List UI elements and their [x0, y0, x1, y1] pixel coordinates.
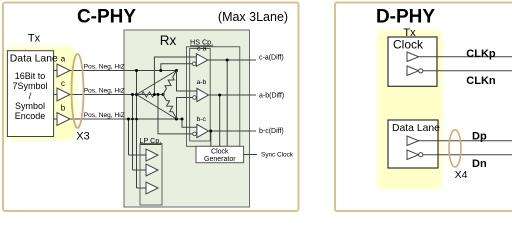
termination resistor R2 diagonal upper — [161, 69, 179, 96]
wire cmp1 plus input net c — [154, 57, 196, 95]
line driver b — [57, 113, 70, 126]
svg-text:X4: X4 — [455, 169, 468, 181]
svg-text:CLKn: CLKn — [466, 75, 496, 87]
node vertical bus a to LP — [136, 71, 138, 189]
termination resistor R3 diagonal lower — [161, 93, 179, 120]
comparator HS b-c — [197, 124, 209, 137]
svg-text:X3: X3 — [76, 131, 89, 143]
svg-text:Data Lane: Data Lane — [10, 54, 58, 65]
svg-text:Symbol: Symbol — [15, 101, 45, 111]
wire line b — [70, 118, 182, 120]
Rx block — [124, 30, 250, 207]
termination resistor R1 horizontal — [137, 92, 164, 97]
svg-text:b-c(Diff): b-c(Diff) — [259, 128, 284, 135]
svg-text:Dp: Dp — [472, 131, 487, 143]
wire clock tap from a-b output — [219, 95, 221, 146]
svg-text:C-PHY: C-PHY — [77, 7, 136, 28]
C-PHY Tx highlight region — [5, 45, 78, 142]
svg-text:Pos, Neg, HiZ: Pos, Neg, HiZ — [84, 88, 125, 95]
node T junction — [175, 69, 178, 72]
svg-text:7Symbol: 7Symbol — [12, 81, 47, 91]
D-PHY Tx highlight region — [376, 29, 444, 191]
svg-text:Clock: Clock — [211, 148, 229, 155]
comparator HS c-a — [196, 54, 207, 67]
comparator HS a-b — [197, 88, 209, 101]
line driver a — [57, 64, 70, 77]
wire encoder to driver b — [54, 118, 57, 120]
svg-text:Clock: Clock — [393, 38, 424, 52]
cable bundle ellipse X4 — [449, 130, 461, 167]
LP comparator 2 — [146, 164, 158, 176]
svg-text:Data Lane: Data Lane — [392, 123, 440, 134]
svg-text:(Max 3Lane): (Max 3Lane) — [218, 10, 288, 24]
HS comparator group box outer — [187, 47, 240, 147]
svg-text:Generator: Generator — [204, 156, 236, 163]
wire Dn — [423, 154, 512, 156]
node vertical b to LP — [128, 119, 130, 155]
cable bundle ellipse X3 — [72, 54, 84, 128]
svg-text:D-PHY: D-PHY — [376, 7, 435, 28]
wire encoder to driver a — [54, 70, 57, 72]
Clock Generator block — [196, 146, 244, 162]
wire cmp2 minus input net b — [177, 98, 193, 120]
wire output a-b — [208, 94, 256, 96]
data driver negative — [407, 150, 419, 160]
wire diagonal c node to node B — [137, 95, 177, 120]
D-PHY panel — [335, 3, 512, 212]
wire line a — [70, 70, 177, 72]
wire CLKp — [419, 56, 512, 58]
svg-text:Rx: Rx — [160, 33, 177, 48]
wire Dp — [419, 140, 512, 142]
svg-text:c: c — [61, 79, 65, 88]
wire cmp3 plus input net b — [182, 119, 197, 127]
wire clock tap from b-c output — [210, 131, 212, 146]
line driver c — [57, 88, 70, 101]
svg-text:Tx: Tx — [28, 33, 41, 45]
svg-text:Encode: Encode — [15, 111, 46, 121]
wire diagonal c node to node T — [137, 71, 177, 95]
svg-text:c-a: c-a — [197, 46, 207, 53]
svg-text:b: b — [61, 104, 66, 113]
svg-text:a-b: a-b — [197, 79, 207, 86]
LP comparator 3 — [146, 182, 158, 194]
svg-text:16Bit to: 16Bit to — [15, 71, 46, 81]
svg-text:a-b(Diff): a-b(Diff) — [259, 93, 284, 100]
svg-text:CLKp: CLKp — [466, 48, 496, 60]
svg-text:Pos, Neg, HiZ: Pos, Neg, HiZ — [84, 63, 125, 70]
Data Lane encoder block — [7, 51, 53, 137]
wire line c — [70, 94, 163, 96]
wire sync clock output — [244, 154, 257, 156]
data driver positive — [407, 136, 419, 146]
HS comparator group box inner — [190, 48, 211, 141]
svg-text:Pos, Neg, HiZ: Pos, Neg, HiZ — [84, 112, 125, 119]
node vertical c to LP — [132, 95, 134, 171]
Data Lane block D-PHY — [388, 120, 438, 168]
svg-text:a: a — [61, 55, 66, 64]
svg-text:b-c: b-c — [197, 116, 207, 123]
C-PHY panel — [3, 3, 299, 212]
svg-text:Dn: Dn — [472, 158, 487, 170]
wire cmp2 plus input net a — [177, 71, 197, 92]
clock driver negative — [407, 66, 419, 76]
svg-text:Sync Clock: Sync Clock — [261, 152, 294, 159]
wire CLKn — [423, 70, 512, 72]
wire encoder to driver c — [54, 94, 57, 96]
LP comparator group box — [140, 144, 162, 206]
Clock block D-PHY — [388, 37, 437, 86]
wire output c-a — [208, 59, 256, 61]
wire clock tap from c-a output — [226, 60, 228, 146]
LP comparator 1 — [146, 149, 158, 161]
svg-text:c-a(Diff): c-a(Diff) — [259, 55, 284, 62]
wire cmp1 minus input net a — [161, 64, 192, 71]
wire output b-c — [208, 130, 256, 132]
node B junction — [175, 118, 178, 121]
clock driver positive — [407, 52, 419, 62]
wire cmp3 minus input net c — [158, 95, 193, 134]
